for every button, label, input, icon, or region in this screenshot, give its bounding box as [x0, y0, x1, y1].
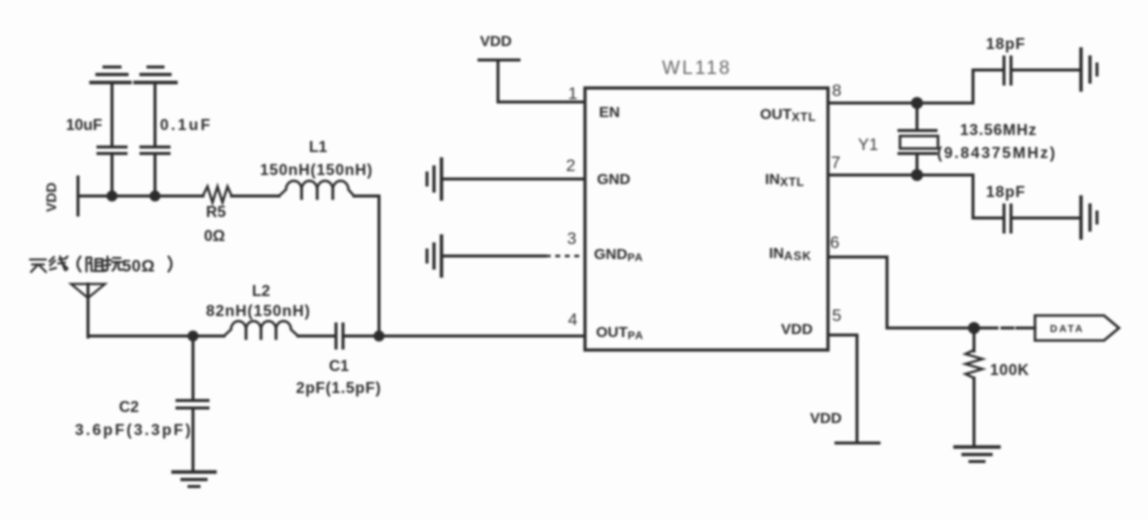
svg-text:VDD: VDD	[480, 33, 512, 50]
svg-text:150nH(150nH): 150nH(150nH)	[260, 162, 373, 179]
resistor R5	[203, 187, 232, 246]
wire C1 to node A	[346, 335, 379, 338]
wire node D to DATA flag	[974, 327, 997, 330]
svg-text:2: 2	[566, 156, 575, 175]
wire node B to L2	[193, 335, 224, 338]
capacitor C2	[75, 399, 208, 439]
wire pin 5 VDD down	[828, 335, 857, 443]
ground (top right, pointing right)	[1081, 49, 1097, 90]
svg-text:8: 8	[832, 81, 841, 100]
wire C2 to ground	[192, 408, 195, 471]
svg-text:3.6pF(3.3pF): 3.6pF(3.3pF)	[75, 422, 193, 439]
junction dot 0.1uF	[150, 191, 161, 202]
junction dot 10uF	[107, 191, 118, 202]
svg-text:WL118: WL118	[662, 58, 732, 79]
capacitor 18pF (top)	[986, 36, 1026, 84]
svg-text:100K: 100K	[990, 362, 1030, 379]
IC U1 WL118	[585, 58, 828, 350]
svg-text:R5: R5	[206, 204, 226, 221]
svg-text:82nH(150nH): 82nH(150nH)	[206, 303, 311, 320]
svg-text:6: 6	[830, 233, 839, 252]
svg-text:OUTXTL: OUTXTL	[760, 106, 816, 124]
wire C 10uF to rail	[111, 154, 114, 196]
node D junction dot	[968, 322, 980, 334]
svg-text:INXTL: INXTL	[765, 171, 804, 189]
capacitor 0.1uF	[141, 117, 212, 154]
svg-text:18pF: 18pF	[986, 184, 1026, 201]
svg-text:0.1uF: 0.1uF	[160, 117, 212, 134]
wire ground to pin 2 GND	[442, 178, 585, 181]
capacitor C1	[296, 324, 381, 397]
wire L2 to C1	[298, 335, 333, 338]
svg-text:DATA: DATA	[1050, 324, 1084, 335]
svg-text:5: 5	[832, 306, 841, 325]
VDD terminal (pin 5 supply, pointing down)	[810, 410, 879, 443]
wire 18pF top to ground	[1014, 69, 1080, 72]
wire node A to pin 4 OUTPA	[379, 335, 585, 338]
wire R5 to L1	[232, 195, 280, 198]
svg-text:Y1: Y1	[858, 136, 878, 154]
wire node B to C2	[192, 336, 195, 399]
svg-text:13.56MHz: 13.56MHz	[960, 122, 1037, 139]
wire ground to pin 3 GNDPA (part dashed)	[442, 255, 545, 258]
svg-text:VDD: VDD	[43, 182, 59, 212]
node XTAL-bottom junction dot	[911, 169, 923, 181]
svg-text:C1: C1	[329, 358, 349, 375]
wire ground to C 10uF	[111, 83, 114, 146]
wire pin 8 OUTXTL to crystal node	[828, 102, 973, 105]
svg-text:GND: GND	[597, 171, 631, 188]
VDD terminal (pin 1 supply)	[479, 33, 519, 60]
inductor L2	[206, 283, 311, 339]
svg-text:18pF: 18pF	[986, 36, 1026, 53]
svg-text:GNDPA: GNDPA	[594, 246, 643, 264]
wire up to top 18pF	[973, 70, 1001, 103]
svg-text:0Ω: 0Ω	[204, 228, 225, 245]
wire C 0.1uF to rail	[154, 154, 157, 196]
svg-text:C2: C2	[119, 399, 139, 416]
ground (below C2)	[173, 472, 215, 487]
svg-text:INASK: INASK	[769, 245, 812, 263]
svg-text:3: 3	[567, 229, 576, 248]
svg-text:VDD: VDD	[781, 321, 813, 338]
svg-text:OUTPA: OUTPA	[596, 324, 644, 342]
wire pin 7 INXTL to crystal node	[828, 174, 973, 177]
node B junction dot	[188, 331, 199, 342]
ground (below 100K)	[955, 447, 999, 462]
svg-text:2pF(1.5pF): 2pF(1.5pF)	[296, 380, 381, 397]
wire pin 6 INASK down and right to node D	[828, 257, 974, 328]
crystal Y1	[858, 103, 938, 175]
wire VDD to pin 1 EN	[498, 60, 585, 102]
svg-text:(9.84375MHz): (9.84375MHz)	[937, 145, 1057, 162]
node A junction dot	[374, 331, 385, 342]
node XTAL-top junction dot	[911, 97, 923, 109]
ground (pin 3, pointing left)	[427, 236, 442, 276]
svg-text:EN: EN	[599, 104, 620, 121]
capacitor 18pF (bottom)	[986, 184, 1026, 232]
svg-text:10uF: 10uF	[66, 117, 102, 134]
ground (pin 2, pointing left)	[427, 159, 442, 199]
wire VDD rail to R5	[78, 195, 203, 198]
wire ground to C 0.1uF	[154, 83, 157, 146]
svg-text:VDD: VDD	[810, 410, 842, 427]
DATA flag	[1035, 316, 1119, 341]
inductor L1	[260, 139, 373, 199]
wire L1 to node A (corner)	[354, 196, 379, 336]
svg-text:L2: L2	[252, 283, 270, 300]
antenna label	[30, 257, 123, 273]
VDD terminal (left rail)	[43, 177, 78, 215]
svg-text:50Ω: 50Ω	[122, 258, 155, 276]
wire 18pF bottom to ground	[1014, 217, 1080, 220]
svg-text:4: 4	[568, 310, 577, 329]
wire down to bottom 18pF	[973, 175, 1001, 218]
antenna	[71, 284, 105, 337]
ground (mid right, pointing right)	[1081, 197, 1097, 238]
wire antenna to node B	[88, 335, 193, 338]
svg-text:7: 7	[831, 153, 840, 172]
capacitor 10uF	[66, 117, 126, 154]
svg-text:L1: L1	[309, 139, 327, 156]
svg-text:1: 1	[568, 84, 577, 103]
ground (above 0.1uF, pointing up)	[135, 67, 176, 83]
resistor 100K	[966, 328, 1030, 446]
ground (above 10uF, pointing up)	[91, 67, 130, 83]
